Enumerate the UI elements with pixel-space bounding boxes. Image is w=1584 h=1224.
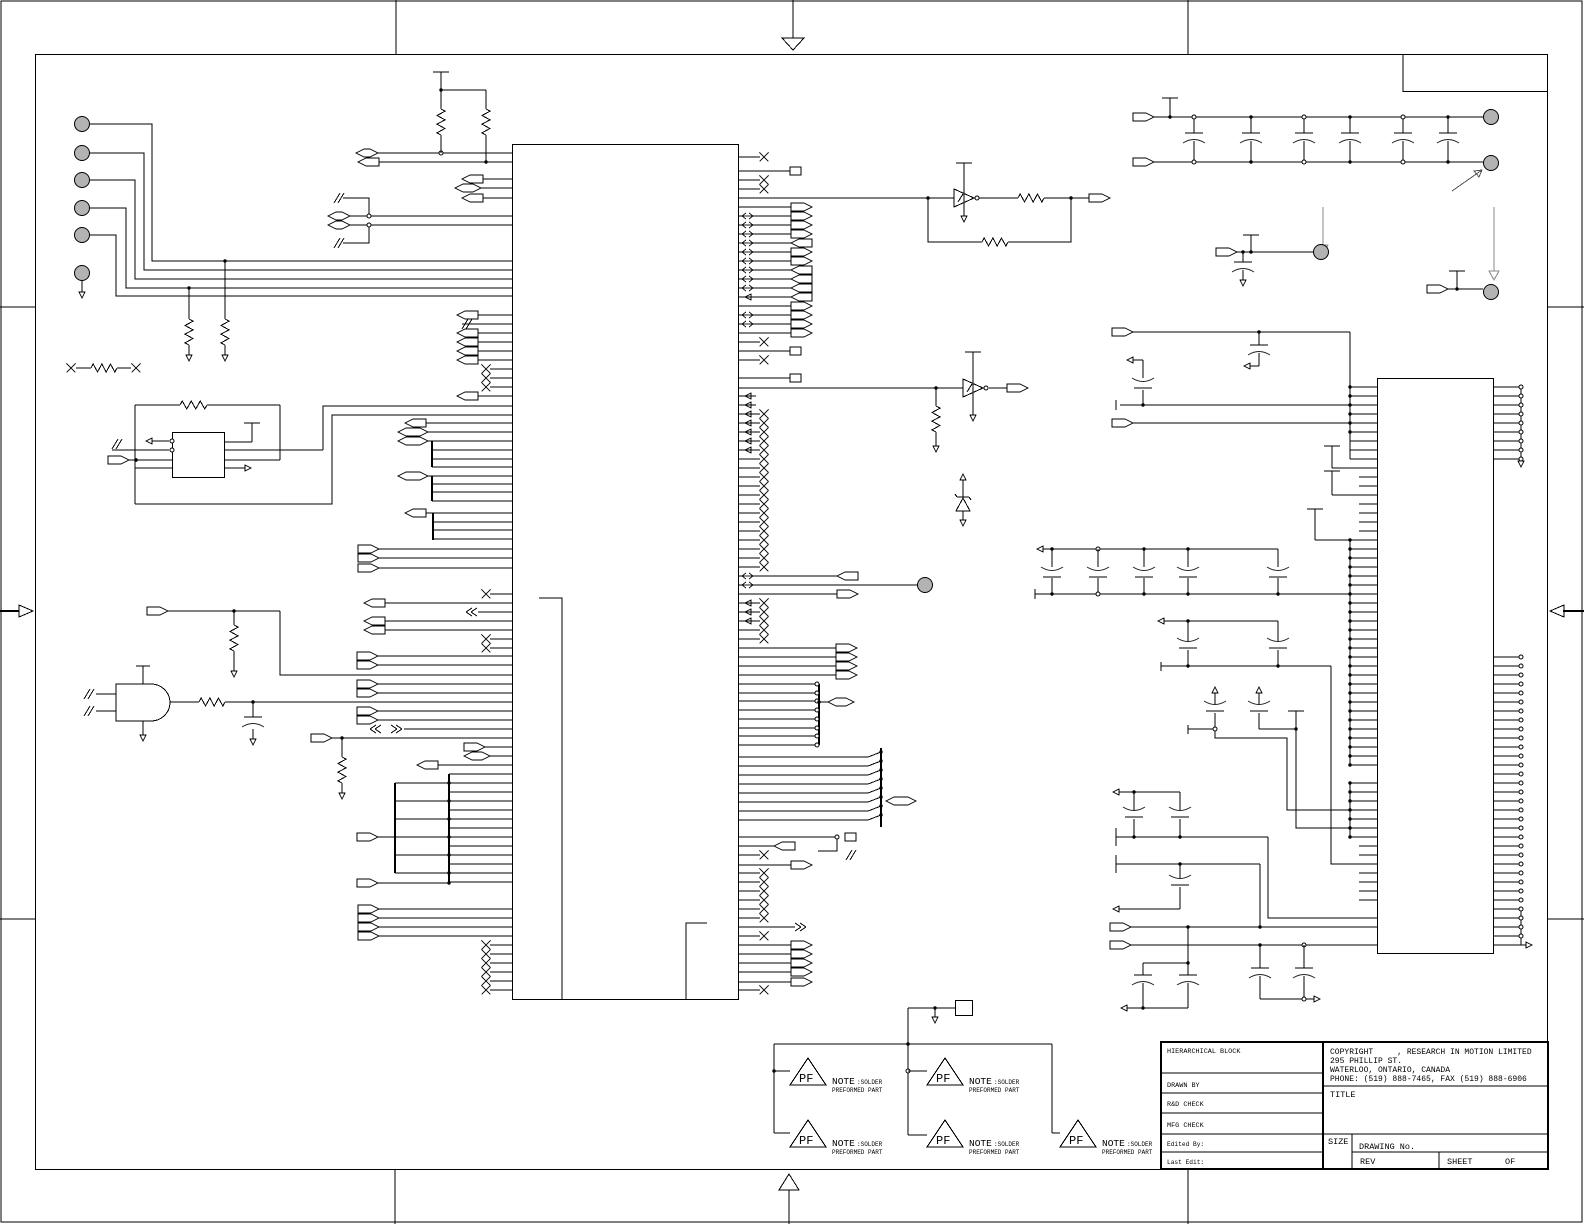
- U5 pin l873: [1359, 872, 1377, 874]
- no-connect r882: [739, 881, 761, 883]
- U5 left bus bar1: [1349, 387, 1351, 459]
- wire U5 vfeed: [1349, 332, 1351, 387]
- left edge tick 2: [0, 918, 35, 920]
- cap bank flag top: [1133, 113, 1154, 121]
- no-connect row369: [490, 368, 512, 370]
- net flag row738: [311, 734, 332, 742]
- U5 pin l702: [1350, 701, 1377, 703]
- wire bA441: [432, 440, 512, 442]
- U5 pin r900: [1494, 899, 1522, 901]
- U5 right chain bottom: [1520, 909, 1522, 945]
- no-connect row990: [490, 989, 512, 991]
- net mark row729: [370, 725, 381, 733]
- pin arrow+x r414: [739, 413, 761, 415]
- svg-text::SOLDER: :SOLDER: [1127, 1141, 1153, 1148]
- wire caps2 top: [1113, 789, 1119, 795]
- wire route F: [1296, 711, 1377, 828]
- power symbol U5d: [1288, 710, 1304, 712]
- feedback resistor R11: [928, 198, 982, 242]
- bottom edge tick 1: [394, 1170, 396, 1224]
- no-connect r459: [739, 458, 761, 460]
- buffer U3: [956, 162, 972, 164]
- U5 pin l513: [1359, 512, 1377, 514]
- svg-text:PREFORMED PART: PREFORMED PART: [1102, 1149, 1153, 1156]
- capacitor C21b: [1269, 647, 1287, 649]
- svg-text:NOTE: NOTE: [969, 1076, 992, 1087]
- resistor R8: [170, 701, 199, 703]
- pin flag r378: [739, 377, 791, 379]
- pin arrow+x r441: [739, 440, 761, 442]
- capacitor C24: [1277, 549, 1279, 567]
- U5 pin l675: [1350, 674, 1377, 676]
- connector pad J6: [75, 266, 90, 281]
- pin arrow+x r423: [739, 422, 761, 424]
- U5 pin r873: [1494, 872, 1522, 874]
- U5 pin rb927: [1494, 926, 1522, 928]
- wire rbar736: [739, 735, 820, 737]
- svg-text:HIERARCHICAL BLOCK: HIERARCHICAL BLOCK: [1167, 1048, 1241, 1056]
- net flag row656: [357, 652, 378, 660]
- U5 chain arrow: [1518, 461, 1524, 467]
- net flag r982: [739, 981, 792, 983]
- gate input 1: [96, 693, 116, 695]
- svg-text:DRAWING No.: DRAWING No.: [1359, 1142, 1415, 1152]
- PF note 3: [774, 1132, 790, 1134]
- U5 pin rb936: [1494, 935, 1522, 937]
- U5 pin l648: [1350, 647, 1377, 649]
- wire rbar710: [739, 709, 820, 711]
- U5 pin r765: [1494, 764, 1522, 766]
- U5 pin l405: [1350, 404, 1377, 406]
- U5 pin l567: [1350, 566, 1377, 568]
- U5 pin l846: [1359, 845, 1377, 847]
- wire: [440, 135, 442, 153]
- net flag row333: [457, 329, 478, 337]
- no-connect r873: [739, 872, 761, 874]
- U5 pin l558: [1350, 557, 1377, 559]
- rev cell divider: [1438, 1152, 1440, 1169]
- capacitor C7: [1447, 117, 1449, 133]
- net wire row324: [462, 323, 512, 325]
- res R6 feedback: [135, 404, 180, 406]
- capacitor C19: [1187, 927, 1189, 975]
- wire route G: [1215, 731, 1377, 810]
- U5 pin l666: [1350, 665, 1377, 667]
- wire rbar728: [739, 727, 820, 729]
- wire: [440, 86, 442, 109]
- U5 pin r774: [1494, 773, 1522, 775]
- svg-text::SOLDER: :SOLDER: [994, 1079, 1020, 1086]
- U5 pin l531: [1359, 530, 1377, 532]
- U5 pin r792: [1494, 791, 1522, 793]
- bottom edge arrow marker: [779, 1174, 799, 1190]
- capacitor C5: [1349, 117, 1351, 133]
- no-connect r639: [739, 638, 761, 640]
- U5 chain arrow2: [1494, 944, 1527, 946]
- capacitor C22: [1142, 547, 1145, 550]
- capacitor C16: [1259, 945, 1261, 968]
- no-connect row387: [490, 386, 512, 388]
- wire pad J1: [90, 124, 512, 261]
- capacitor C18: [1142, 963, 1144, 975]
- net flag ladder bottom: [357, 879, 378, 887]
- bus pin r216: [739, 215, 792, 217]
- connector pad VBAT2: [1484, 156, 1499, 171]
- bus pin r270: [739, 269, 792, 271]
- wire bC539: [433, 538, 512, 540]
- net flag r648: [739, 647, 837, 649]
- bus pin r306: [739, 305, 792, 307]
- wire rmerge802: [739, 801, 869, 803]
- capacitor C2: [1193, 117, 1195, 133]
- no-connect r531: [739, 530, 761, 532]
- no-connect r612: [739, 611, 761, 613]
- wire ladder864: [449, 863, 512, 865]
- wire ladder855: [449, 854, 512, 856]
- power symbol VCC4: [1169, 97, 1171, 99]
- net flag row665: [357, 661, 378, 669]
- top edge tick 1: [395, 0, 397, 54]
- wire rmerge793: [739, 792, 869, 794]
- net flag row360: [457, 356, 478, 364]
- net flag r594: [739, 593, 838, 595]
- connector pad J4: [75, 201, 90, 216]
- U5 pin l720: [1350, 719, 1377, 721]
- net flag row423r: [1112, 419, 1133, 427]
- connector pad VBAT1: [1484, 110, 1499, 125]
- no-connect r567: [739, 566, 761, 568]
- IC U1 internal partition A: [539, 598, 562, 999]
- U5 pin l783: [1350, 782, 1377, 784]
- capacitor C13: [1133, 792, 1135, 810]
- wire capbank3 top: [1143, 962, 1188, 964]
- gate U2 body: [116, 684, 170, 721]
- svg-text:Last Edit:: Last Edit:: [1167, 1159, 1204, 1166]
- svg-text:R&D CHECK: R&D CHECK: [1167, 1101, 1205, 1109]
- power symbol U5bT: [1324, 470, 1340, 472]
- no-connect r189: [739, 188, 761, 190]
- U5 left bus bar2: [1349, 540, 1351, 765]
- net flag row747: [464, 743, 485, 751]
- U5 pin l765: [1350, 764, 1377, 766]
- U5 pin l459: [1350, 458, 1377, 460]
- U5 pin rb909: [1494, 908, 1522, 910]
- net flag U5 bl2: [1110, 941, 1131, 949]
- svg-text:PF: PF: [799, 1072, 813, 1086]
- net flag row198: [462, 194, 483, 202]
- title row divider 1134: [1161, 1133, 1323, 1135]
- title row divider 1113: [1161, 1112, 1323, 1114]
- net flag r657: [739, 656, 837, 658]
- svg-text:PHONE: (519) 888-7465, FAX (51: PHONE: (519) 888-7465, FAX (519) 888-690…: [1330, 1075, 1527, 1084]
- net flag row630: [364, 626, 385, 634]
- net flag r945: [739, 944, 792, 946]
- svg-text:PF: PF: [936, 1134, 950, 1148]
- no-connect row954: [490, 953, 512, 955]
- no-connect r855: [739, 854, 761, 856]
- pull resistor R7: [233, 611, 235, 625]
- wire U1 to U3: [739, 197, 955, 199]
- wire ladderL837: [395, 836, 449, 838]
- net flag row909: [358, 905, 379, 913]
- PF note 5: [1052, 1132, 1060, 1134]
- net flag row568: [358, 564, 379, 572]
- no-connect r990: [739, 989, 761, 991]
- left edge tick 1: [0, 306, 35, 308]
- capacitor C6: [1402, 117, 1404, 133]
- power symbol VCC1: [433, 71, 449, 73]
- right edge arrow marker: [1563, 610, 1584, 612]
- wire bB476: [432, 475, 512, 477]
- net flag row918: [358, 914, 379, 922]
- U5 pin r675: [1494, 674, 1522, 676]
- U5 pin l441: [1350, 440, 1377, 442]
- capacitor C23: [1186, 547, 1189, 550]
- net flag r846: [739, 845, 775, 847]
- U5 pin l522: [1359, 521, 1377, 523]
- no-connect r477: [739, 476, 761, 478]
- svg-text:TITLE: TITLE: [1330, 1090, 1356, 1100]
- connector pad P1: [1314, 245, 1329, 260]
- title row divider 1073: [1161, 1072, 1323, 1074]
- net flag row351: [457, 347, 478, 355]
- wire to pad: [739, 584, 918, 586]
- wire rmerge766: [739, 765, 869, 767]
- U5 pin r810: [1494, 809, 1522, 811]
- power symbol VCC6: [1456, 270, 1458, 272]
- wire pad J5: [90, 235, 512, 296]
- PF note 4: [908, 1134, 927, 1136]
- bus pin r252: [739, 251, 792, 253]
- wire notes right: [1051, 1044, 1053, 1133]
- pull resistor R9: [341, 738, 343, 757]
- net oval row432: [398, 428, 428, 436]
- wire route D: [1259, 864, 1261, 927]
- svg-text:OF: OF: [1505, 1157, 1515, 1167]
- no-connect row972: [490, 971, 512, 973]
- svg-text:PF: PF: [799, 1134, 813, 1148]
- no-connect row963: [490, 962, 512, 964]
- capacitor C10: [1134, 387, 1152, 389]
- U5 pin l387: [1350, 386, 1377, 388]
- U5 pin r414: [1494, 413, 1522, 415]
- wire bA467: [432, 466, 512, 468]
- net flag row927: [358, 923, 379, 931]
- gate ground: [142, 721, 144, 735]
- connector pad J1: [75, 117, 90, 132]
- wire: [279, 405, 281, 460]
- no-connect r549: [739, 548, 761, 550]
- spare resistor R5: [67, 364, 76, 373]
- bus pin r225: [739, 224, 792, 226]
- svg-text:MFG CHECK: MFG CHECK: [1167, 1122, 1205, 1130]
- capacitor C3: [1250, 117, 1252, 133]
- net oval row756: [464, 752, 490, 760]
- wire rmerge811: [739, 810, 869, 812]
- U5 pin r837: [1494, 836, 1522, 838]
- pull resistor R3: [187, 286, 190, 289]
- no-connect r522: [739, 521, 761, 523]
- wire rbar693: [739, 692, 820, 694]
- U5 pin l837: [1350, 836, 1377, 838]
- wire capbank3: [1121, 1005, 1127, 1011]
- net flag row936: [358, 932, 379, 940]
- U5 pin r423: [1494, 422, 1522, 424]
- bus pin r315: [739, 314, 792, 316]
- U5 pin l684: [1350, 683, 1377, 685]
- wire rbar701: [739, 700, 820, 702]
- net flag U5 top: [1112, 328, 1133, 336]
- U5 pin l432: [1350, 431, 1377, 433]
- wire ladder846: [449, 845, 512, 847]
- svg-text:NOTE: NOTE: [832, 1076, 855, 1087]
- bus pin r243: [739, 242, 792, 244]
- bus pin r297: [739, 296, 792, 298]
- pin arrow+x r432: [739, 431, 761, 433]
- wire ladderL855: [395, 854, 449, 856]
- net flag U4 out: [989, 387, 1007, 389]
- wire bC530: [433, 529, 512, 531]
- wire ladderL819: [395, 818, 449, 820]
- annotation arrow v2: [1493, 207, 1495, 271]
- wire capbot: [1260, 998, 1314, 1000]
- gate input 2: [96, 710, 116, 712]
- U5 pin r702: [1494, 701, 1522, 703]
- svg-text:NOTE: NOTE: [832, 1138, 855, 1149]
- svg-text:PREFORMED PART: PREFORMED PART: [969, 1087, 1020, 1094]
- bundle bracket B: [431, 476, 433, 501]
- svg-text:REV: REV: [1360, 1157, 1376, 1167]
- zener D1: [960, 474, 966, 480]
- U5 pin l549: [1350, 548, 1377, 550]
- wire cap bus bottom: [1160, 662, 1162, 671]
- net flag XTAL1: [356, 149, 378, 157]
- bar terminal 405: [1115, 400, 1117, 410]
- wire: [485, 135, 487, 162]
- U5 pin r801: [1494, 800, 1522, 802]
- U5 pin r405: [1494, 404, 1522, 406]
- no-connect r342: [739, 341, 761, 343]
- wire rmerge820: [739, 819, 869, 821]
- connector pad center: [918, 578, 933, 593]
- wire notes vert: [907, 1008, 909, 1135]
- no-connect r900: [739, 899, 761, 901]
- no-connect row981: [490, 980, 512, 982]
- revision box top right: [1403, 55, 1548, 92]
- net flag row423: [405, 419, 426, 427]
- U5 pin r693: [1494, 692, 1522, 694]
- bundle bracket C: [432, 513, 434, 540]
- capacitor C9: [1257, 330, 1260, 333]
- wire: [134, 405, 136, 460]
- pin arrow+x r450: [739, 449, 761, 451]
- wire bC513: [433, 512, 512, 514]
- wire C15 out: [1113, 906, 1119, 912]
- net flag RESET: [147, 607, 168, 615]
- title row divider 1152: [1161, 1151, 1323, 1153]
- U5 pin r387: [1494, 386, 1522, 388]
- wire pad J2: [90, 153, 512, 270]
- net flag OSC in: [108, 456, 129, 464]
- wire bB501: [432, 500, 512, 502]
- U5 pin l396: [1350, 395, 1377, 397]
- U5 pin r846: [1494, 845, 1522, 847]
- svg-text:COPYRIGHT , RESEARCH IN MO: COPYRIGHT , RESEARCH IN MOTION LIMITED: [1330, 1048, 1532, 1057]
- net flag row396: [457, 392, 478, 400]
- buffer U4: [965, 351, 981, 353]
- net flag row684: [357, 680, 378, 688]
- xtal aux arrow: [224, 467, 245, 469]
- net flag rbarout: [819, 701, 828, 703]
- wire ladder783: [449, 782, 512, 784]
- no-connect r360: [739, 359, 761, 361]
- bus bar U1 left outer: [394, 783, 396, 873]
- no-connect r630: [739, 629, 761, 631]
- annotation arrow diag: [1452, 170, 1482, 191]
- bus pin r234: [739, 233, 792, 235]
- svg-text::SOLDER: :SOLDER: [994, 1141, 1020, 1148]
- net flag U5 bl1: [1110, 923, 1131, 931]
- power symbol U5a: [1324, 445, 1340, 447]
- right edge tick 2: [1548, 918, 1584, 920]
- wire ladder792: [449, 791, 512, 793]
- U5 pin r819: [1494, 818, 1522, 820]
- connector pad J2: [75, 146, 90, 161]
- net flag row558: [358, 554, 379, 562]
- top edge tick 2: [1187, 0, 1189, 54]
- cap bank flag bottom: [1133, 158, 1154, 166]
- U5 pin r756: [1494, 755, 1522, 757]
- net oval row476: [398, 472, 428, 480]
- wire ladder828: [449, 827, 512, 829]
- U5 pin l900: [1359, 899, 1377, 901]
- connector pad P2: [1484, 285, 1499, 300]
- svg-text:PREFORMED PART: PREFORMED PART: [832, 1087, 883, 1094]
- svg-text:DRAWN BY: DRAWN BY: [1167, 1082, 1200, 1090]
- wire rbar719: [739, 718, 820, 720]
- size row divider: [1323, 1133, 1548, 1135]
- power symbol VCC5: [1250, 234, 1252, 236]
- capacitor C1: [252, 702, 254, 717]
- no-connect r504: [739, 503, 761, 505]
- U5 pin r729: [1494, 728, 1522, 730]
- title block frame: [1161, 1042, 1548, 1169]
- U5 pin r711: [1494, 710, 1522, 712]
- wire U1 to U4: [739, 387, 964, 389]
- sheet symbol box: [956, 1001, 973, 1016]
- U5 pin l792: [1350, 791, 1377, 793]
- bus pin r324: [739, 323, 792, 325]
- no-connect r891: [739, 890, 761, 892]
- capacitor C4: [1303, 117, 1305, 133]
- U5 pin l585: [1350, 584, 1377, 586]
- U5 pin r684: [1494, 683, 1522, 685]
- net flag row342: [457, 338, 478, 346]
- power symbol U5c: [1307, 508, 1323, 510]
- diff pair flags: [328, 212, 350, 220]
- xtal pin2: [170, 448, 174, 452]
- no-connect r180: [739, 179, 761, 181]
- no-connect row594: [490, 593, 512, 595]
- U5 pin r432: [1494, 431, 1522, 433]
- no-connect r621: [739, 620, 761, 622]
- U5 pin r891: [1494, 890, 1522, 892]
- U5 pin r747: [1494, 746, 1522, 748]
- pull resistor R4: [223, 259, 226, 262]
- no-connect row378: [490, 377, 512, 379]
- svg-text::SOLDER: :SOLDER: [857, 1141, 883, 1148]
- net flag r666: [739, 665, 837, 667]
